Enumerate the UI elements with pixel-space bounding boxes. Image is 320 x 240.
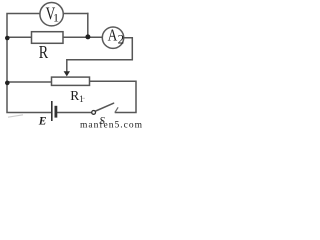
svg-text:R: R <box>70 88 79 103</box>
svg-text:1: 1 <box>79 94 84 104</box>
svg-text:1: 1 <box>53 10 59 24</box>
svg-text:A: A <box>108 26 118 45</box>
svg-text:R: R <box>39 43 49 62</box>
svg-text:E: E <box>38 116 47 128</box>
svg-text:manfen5.com: manfen5.com <box>80 120 143 131</box>
svg-text:2: 2 <box>118 31 125 46</box>
